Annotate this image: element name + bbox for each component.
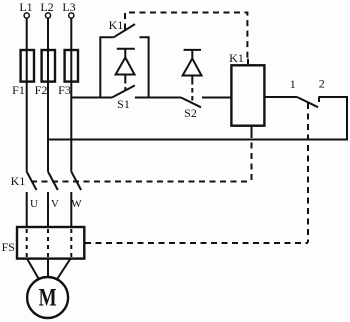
- svg-text:F3: F3: [58, 83, 71, 97]
- svg-text:L2: L2: [40, 0, 53, 14]
- push button S2 actuator triangle: [183, 59, 202, 76]
- wire pole2 contact to FS: [47, 192, 49, 227]
- dashed phase line inside FS pole 2: [47, 229, 49, 257]
- fuse F2: [42, 50, 55, 82]
- wire L3 terminal to fuse F3: [70, 18, 72, 50]
- mechanical link dashed line of K1 main contacts to coil: [31, 181, 252, 183]
- FS contact blade (normally closed): [297, 97, 318, 107]
- control line tap from L3 to S1 pivot: [71, 97, 112, 99]
- fuse F3: [65, 50, 78, 82]
- relay enclosure dashed boundary: [125, 13, 247, 59]
- svg-text:FS: FS: [2, 240, 15, 254]
- svg-text:L1: L1: [19, 0, 32, 14]
- motor M circle: [27, 277, 68, 318]
- svg-text:2: 2: [319, 77, 325, 91]
- wire through fuse F3: [70, 50, 72, 82]
- FS contact mechanical dashed link vertical: [307, 103, 309, 243]
- K1 auxiliary contact blade: [114, 24, 135, 37]
- contactor K1 main contact blade pole 3: [71, 172, 81, 190]
- terminal L3: [69, 13, 74, 18]
- coil K1 top stub to enclosure: [247, 59, 249, 66]
- wire through fuse F2: [47, 50, 49, 82]
- push button S1 actuator T-bar: [117, 48, 135, 50]
- wire pole3 contact to FS: [70, 192, 72, 227]
- svg-text:L3: L3: [62, 0, 75, 14]
- wire coil K1 to FS contact terminal 1: [264, 96, 297, 98]
- push button S2 actuator stem: [191, 50, 193, 59]
- fuse F1: [21, 50, 34, 82]
- FS mechanical dashed link horizontal to FS box: [85, 242, 308, 244]
- terminal L2: [45, 13, 50, 18]
- svg-text:F2: F2: [35, 83, 48, 97]
- coil K1 bottom mechanical dashed link: [251, 132, 253, 182]
- svg-text:W: W: [71, 198, 82, 210]
- wire L2 terminal to fuse F2: [47, 18, 49, 50]
- svg-text:K1: K1: [109, 18, 124, 32]
- wire F3 to main contact: [70, 82, 72, 172]
- push button S1 mechanical dashed link: [124, 79, 126, 91]
- svg-text:V: V: [51, 198, 59, 210]
- FS protection device box: [17, 227, 84, 259]
- wire F2 to main contact: [47, 82, 49, 172]
- wire FS to motor phase 3: [58, 259, 71, 279]
- svg-text:K1: K1: [11, 174, 26, 188]
- contactor K1 main contact blade pole 2: [48, 172, 58, 190]
- wire FS to motor phase 1: [27, 259, 39, 279]
- svg-text:M: M: [39, 285, 57, 312]
- coil K1 bottom stub: [251, 126, 253, 132]
- wire pole1 contact to FS: [26, 192, 28, 227]
- push button S2 contact blade (normally closed): [181, 98, 201, 108]
- wire FS to motor phase 2: [47, 259, 49, 277]
- control wire S1 to S2: [135, 97, 181, 99]
- svg-text:S2: S2: [184, 106, 197, 120]
- push button S1 actuator triangle: [116, 58, 135, 75]
- svg-text:F1: F1: [12, 83, 25, 97]
- push button S1 contact blade: [112, 85, 135, 97]
- FS contact terminal 2 tick: [318, 96, 320, 102]
- push button S1 actuator stem: [124, 49, 126, 58]
- svg-text:1: 1: [290, 77, 296, 91]
- dashed phase line inside FS pole 1: [26, 229, 28, 257]
- push button S1 actuator lower stub: [124, 75, 126, 80]
- push button S2 actuator T-bar: [184, 49, 201, 51]
- control wire S2 to coil K1: [202, 97, 231, 99]
- wire L1 terminal to fuse F1: [26, 18, 28, 50]
- contactor coil K1: [231, 65, 264, 125]
- push button S2 actuator lower stub: [191, 76, 193, 81]
- push button S2 mechanical dashed link: [191, 80, 193, 103]
- wire through fuse F1: [26, 50, 28, 82]
- dashed phase line inside FS pole 3: [70, 229, 72, 257]
- svg-text:S1: S1: [117, 97, 130, 111]
- contactor K1 main contact blade pole 1: [27, 172, 37, 190]
- return wire terminal 2 to L2 line: [48, 97, 347, 140]
- parallel branch left bracket wire: [100, 37, 113, 97]
- svg-text:U: U: [30, 198, 38, 210]
- K1 auxiliary contact fixed terminal and right bracket wire: [140, 37, 149, 97]
- wire F1 to main contact: [26, 82, 28, 172]
- svg-text:K1: K1: [229, 51, 244, 65]
- terminal L1: [24, 13, 29, 18]
